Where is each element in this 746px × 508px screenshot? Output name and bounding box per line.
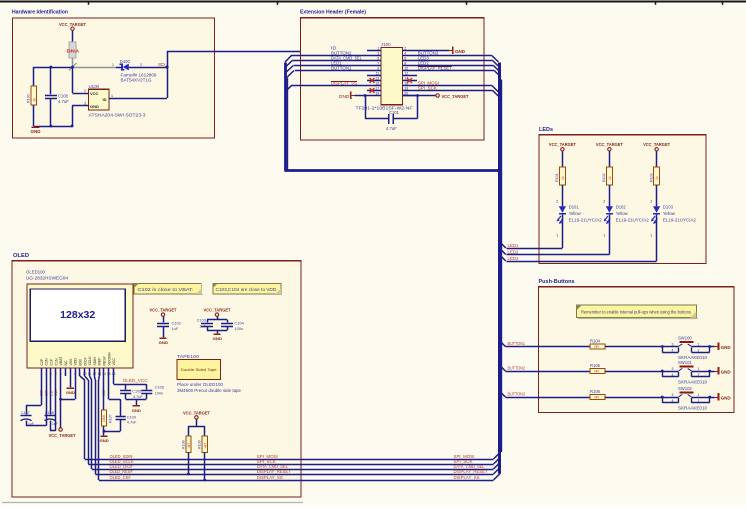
svg-text:3: 3 [672,393,674,397]
wire R100 top lead [33,67,35,86]
svg-text:C109: C109 [127,415,136,419]
junction SW101 left [661,370,664,373]
net label LED3 [418,56,430,61]
svg-text:SDIN: SDIN [93,357,97,366]
resistor R100 [27,86,37,105]
svg-text:2: 2 [84,89,86,93]
svg-text:Yellow: Yellow [569,211,582,216]
wire LED2 to bus [417,66,500,73]
svg-text:17: 17 [375,87,379,91]
resistor R106 [590,389,605,400]
svg-text:Yellow: Yellow [663,211,676,216]
pin 14 J100 [403,77,418,81]
svg-text:Push-Buttons: Push-Buttons [539,279,575,285]
pin 8 VDD OLED100 [74,358,78,376]
net label LED2 [418,61,430,66]
switch SW101 SKRAAKE010 [662,360,709,384]
svg-text:1uF: 1uF [172,326,179,331]
power port VCC_TARGET (pull-ups) [183,411,210,420]
block OLED [12,253,301,497]
junction ID node [165,65,168,68]
wire SW101 to GND [710,371,715,373]
svg-text:C100: C100 [58,94,69,99]
wire D103 cathode down [656,215,658,261]
svg-text:11: 11 [88,372,92,376]
wire VCC to DNA resistor [72,31,74,42]
wire VCC split C103 C104 [207,317,228,323]
pin 6 J100 [403,57,418,61]
wire SPI_SCK horizontal run [88,464,493,466]
svg-text:4: 4 [404,52,406,56]
svg-text:OLED_VCC: OLED_VCC [123,378,148,383]
svg-text:0R: 0R [595,370,600,374]
ground GND (pin 19) [339,92,355,99]
no connect X pin 13 [370,78,375,83]
svg-text:1: 1 [698,343,700,347]
right bus vertical wires [500,63,502,474]
power port VCC_TARGET (pin 20) [436,94,469,99]
svg-text:VCC_TARGET: VCC_TARGET [643,142,670,147]
svg-text:SW101: SW101 [678,360,692,365]
wire SPI_MOSI horizontal run [85,459,494,461]
svg-text:R107: R107 [108,414,112,423]
svg-text:BUTTON3: BUTTON3 [508,392,526,397]
svg-text:VDD: VDD [74,358,78,366]
svg-text:GND: GND [66,391,75,395]
svg-text:EL19-21UYC/A2: EL19-21UYC/A2 [616,217,650,222]
svg-text:4k7: 4k7 [187,443,191,448]
svg-text:4k7: 4k7 [203,443,207,448]
wire U100 pin2 to node [73,67,83,94]
pin 9 BS0 OLED100 [78,359,82,376]
svg-text:D101: D101 [569,204,580,209]
net label LED1 (bus tap) [508,243,520,248]
ground GND (VSS) [66,387,75,395]
svg-text:DISPLAY_RESET: DISPLAY_RESET [257,469,292,474]
svg-text:5: 5 [60,372,62,376]
svg-text:OLED100: OLED100 [26,270,45,275]
svg-text:2: 2 [698,349,700,353]
svg-text:R104: R104 [590,339,601,344]
wire SPI_SCK bus diagonal [494,457,501,464]
wire C1P to C108 [49,376,52,415]
svg-text:D102: D102 [616,204,627,209]
svg-text:GND: GND [721,396,731,401]
wire OLED signal 4 vertical [94,376,95,474]
bus horizontal wires [285,169,500,172]
diode D100 BAT54 [120,59,158,83]
resistor R109 [198,436,208,452]
svg-text:D103: D103 [663,204,674,209]
junction SW100 right [708,345,711,348]
net label SPI_MOSI (header) [418,81,439,86]
power port VCC_TARGET (D103) [643,142,670,151]
junction DNA node [71,66,74,69]
wire VCC to R102 [609,151,611,167]
wire U100 pin1 to ID node [116,51,168,99]
wire pin2 to GND [417,50,449,52]
svg-text:U100: U100 [89,84,100,89]
svg-text:100n: 100n [235,326,244,331]
svg-text:1: 1 [698,367,700,371]
junction C100 top [50,66,53,69]
svg-text:ID: ID [158,62,165,67]
svg-text:11: 11 [376,72,380,76]
svg-text:12: 12 [93,372,97,376]
wire BUTTON1 to bus [287,71,367,78]
power port VCC_TARGET (C103/C104) [204,308,231,317]
capacitor C104 [221,320,245,331]
wire C109 bottom to ground junction [104,420,121,432]
net label OLED_RES# [110,469,134,474]
svg-text:C102: C102 [172,320,181,325]
svg-text:1: 1 [40,372,42,376]
svg-text:VSS: VSS [69,358,73,366]
svg-text:GND: GND [721,370,731,375]
note C103 C104 are close to VDD [213,284,282,295]
svg-text:Farnell# 1612809: Farnell# 1612809 [121,72,158,77]
wire R106 to SW102 [605,397,662,399]
label D103 Yellow [663,204,697,222]
pin 18 J100 [403,87,418,91]
sheet top border line [0,2,746,5]
net labels on charge pump pins (red) [40,389,58,396]
LED D103 [651,206,660,224]
wire U100 pin3 to ground rail [72,106,82,127]
svg-text:VCC_TARGET: VCC_TARGET [183,411,210,416]
svg-text:DNA: DNA [67,48,80,53]
svg-text:6: 6 [65,372,67,376]
wire VDD to VBAT rail [61,376,76,400]
svg-text:2: 2 [650,200,652,204]
wire DATA_CMD_SEL horizontal run [92,469,494,471]
pin 14 RES# OLED100 [102,356,106,376]
wire LED3 bus diagonal [499,254,506,261]
svg-text:EL19-21UYC/A2: EL19-21UYC/A2 [663,217,697,222]
wire DISPLAY_RESET horizontal run [95,474,493,476]
svg-text:4.7uF: 4.7uF [127,421,137,425]
pin 2 SW102 [698,399,700,403]
capacitor C107 [21,411,34,426]
net label OLED_VCC [123,378,148,383]
svg-text:VCC_TARGET: VCC_TARGET [549,142,576,147]
svg-text:1: 1 [556,234,558,238]
net label ID [158,62,165,67]
svg-text:R109: R109 [198,440,202,449]
switch SW102 SKRAAKE010 [662,386,709,410]
svg-text:OLED: OLED [13,253,29,259]
svg-text:4: 4 [672,399,674,403]
svg-text:UG-2832HSWEG04: UG-2832HSWEG04 [26,275,69,280]
connector J100 [356,42,414,111]
pin 1 SW100 [698,343,700,347]
svg-text:SW100: SW100 [678,336,692,341]
pin 3 SW102 [672,393,674,397]
junction SW102 right [708,396,711,399]
capacitor C109 [116,415,138,424]
capacitor C101 [386,110,400,131]
svg-text:GND: GND [339,94,350,99]
wire R104 to SW100 [605,346,662,348]
wire R100 bottom lead [33,105,35,126]
wire node rail navy part [34,67,73,69]
svg-text:VCC_TARGET: VCC_TARGET [150,308,177,313]
svg-text:VCC_TARGET: VCC_TARGET [442,94,469,99]
svg-text:BUTTON2: BUTTON2 [508,366,526,371]
wire C105 drop [125,384,127,390]
svg-text:GND: GND [159,340,169,345]
wire C107 bottom to C2N [26,376,47,426]
wire LED1 horizontal [507,248,563,250]
net label DISPLAY_RESET (active low) [418,66,453,71]
pin 1 D101 [556,234,558,238]
pin 2 D101 [556,200,558,204]
svg-text:4.7uF: 4.7uF [133,395,143,399]
svg-text:3: 3 [672,343,674,347]
svg-text:4: 4 [55,372,57,376]
net label DISPLAY_SS (right) [454,475,480,480]
pin 11 J100 [367,72,381,76]
pin 1 D102 [603,234,605,238]
svg-text:D100: D100 [120,59,131,64]
pin 4 SW101 [672,373,674,377]
power port VCC_TARGET (VBAT) [49,428,76,438]
svg-text:ATSHA204-SWI SOT23-3: ATSHA204-SWI SOT23-3 [89,112,147,117]
junction gnd rail C100 [50,125,74,128]
svg-text:Remember to enable internal pu: Remember to enable internal pull-ups whe… [581,309,692,314]
pin 4 SW100 [672,349,674,353]
svg-text:C105: C105 [132,390,141,394]
junction R107 C109 ground [103,430,106,433]
wire D102 cathode down [609,215,611,255]
wire VCC to C102 [163,317,165,323]
svg-text:DISPLAY_RESET: DISPLAY_RESET [454,469,489,474]
svg-text:C102 is close to VBAT.: C102 is close to VBAT. [138,287,194,292]
wire VCC split R108 R109 [188,419,204,436]
pin 3 J100 [367,52,381,56]
wire DISPLAY_SS horizontal run [99,480,494,482]
net label LED2 (bus tap) [508,250,520,255]
svg-text:3: 3 [377,52,379,56]
net label SPI_SCK (right) [454,459,473,464]
svg-text:Extension Header (Female): Extension Header (Female) [300,10,366,16]
no connect X pin 17 [370,88,375,93]
svg-text:C107: C107 [21,411,30,415]
svg-text:BS0: BS0 [78,359,82,366]
svg-text:R106: R106 [590,389,601,394]
wire VBAT down [60,376,62,428]
net label DATA_CMD_SEL (right) [454,464,486,469]
IC U100 ATSHA204 [88,84,146,117]
wire LED3 horizontal [507,261,657,263]
wire BUTTON2 to bus [285,56,367,63]
svg-text:10: 10 [404,67,408,71]
svg-text:R102: R102 [602,173,606,182]
power port VCC_TARGET (D101) [549,142,576,151]
svg-text:GND: GND [31,129,41,134]
pin 13 J100 [367,77,381,81]
left bus vertical wires [286,63,288,172]
svg-text:LED1: LED1 [508,243,520,248]
svg-text:SKRAAKE010: SKRAAKE010 [678,380,708,385]
wire LED2 bus diagonal [499,248,506,255]
svg-text:DISPLAY_SS: DISPLAY_SS [454,475,480,480]
resistor R108 [181,436,191,452]
svg-text:6: 6 [404,57,406,61]
svg-text:C106: C106 [155,385,164,389]
svg-text:Yellow: Yellow [616,211,629,216]
svg-text:128x32: 128x32 [60,309,95,321]
svg-text:EL19-21UYC/A2: EL19-21UYC/A2 [569,217,603,222]
svg-text:1: 1 [111,94,113,98]
wire R103 to D103 [656,185,658,206]
svg-text:LED3: LED3 [508,256,520,261]
net label BUTTON3 (bus tap) [508,392,526,397]
pin 16 J100 [403,82,418,86]
pin 1 U100 [109,94,115,99]
svg-text:15: 15 [375,82,379,86]
svg-text:1: 1 [650,234,652,238]
wire pin20 to VCC [403,95,436,97]
wire SW100 to GND [710,346,715,348]
wire BUTTON2 to R105 [505,371,590,373]
no-fit marker slash [69,63,77,71]
resistor R101A DNA (not fitted) [67,42,80,58]
wire OLED_VCC ground rail [126,394,147,406]
svg-text:Double Sided Tape: Double Sided Tape [181,368,217,372]
pin 2 U100 [82,89,88,94]
svg-text:R105: R105 [590,363,601,368]
pin 19 J100 [367,92,381,96]
pin 3 SW101 [672,367,674,371]
net label SPI_MOSI (mid) [257,454,278,459]
svg-text:2: 2 [698,373,700,377]
wire R102 to D102 [609,185,611,206]
svg-text:1: 1 [698,393,700,397]
junction C101 left [364,94,367,97]
svg-text:C104: C104 [235,320,245,325]
resistor R101 [555,167,565,185]
wire IREF to R107 [103,376,105,410]
pin 2 D103 [650,200,652,204]
svg-text:VCOMH: VCOMH [107,352,111,366]
svg-text:VCC_TARGET: VCC_TARGET [49,433,76,438]
pin 1 D100 [112,63,114,67]
pin 10 J100 [403,67,418,71]
svg-text:OLED_RES#: OLED_RES# [110,469,134,474]
wire SPI_SCK to bus [417,91,499,98]
svg-text:VBAT: VBAT [59,356,63,366]
svg-text:GND: GND [90,104,99,109]
wire SPI_MOSI to bus [417,86,499,93]
svg-text:19: 19 [375,92,379,96]
junction bus corner [498,169,502,173]
sheet bottom edge shadow [0,503,746,508]
pin 4 SW102 [672,399,674,403]
svg-text:13: 13 [97,372,101,376]
svg-text:19k6: 19k6 [102,415,106,422]
junction C101 right [416,94,419,97]
pin 9 J100 [367,67,381,71]
junction SW100 left [661,345,664,348]
net label DISPLAY_RESET (mid) [257,469,292,474]
pin 15 VCOMH OLED100 [107,352,111,376]
svg-text:OLED_CS#: OLED_CS# [110,475,132,480]
net label LED1 [331,61,342,66]
switch SW100 SKRAAKE010 [662,336,709,360]
capacitor C100 [45,94,69,104]
ground GND (C102) [159,337,169,345]
wire BUTTON3 bus diagonal [499,390,506,397]
svg-text:C2P: C2P [40,358,44,365]
wire VCOMH to C109 [109,376,121,416]
power port VCC_TARGET (C102) [150,308,177,317]
svg-text:GND: GND [213,336,223,341]
net label LED3 (bus tap) [508,256,520,261]
wire DATA_CMD_SEL to bus [286,61,367,68]
net label DATA_CMD_SEL [331,56,363,61]
label D102 Yellow [616,204,650,222]
wire R108 to DISPLAY_RESET [188,452,190,474]
svg-text:1: 1 [603,234,605,238]
junction R109 [203,479,206,482]
note C102 is close to VBAT [134,284,203,295]
net label SPI_MOSI (right) [454,454,475,459]
wire VCC to R103 [656,151,658,167]
svg-text:4: 4 [672,373,674,377]
pin 15 J100 [367,82,381,86]
wire DISPLAY_SS bus diagonal [494,473,501,480]
svg-text:C103: C103 [197,318,206,323]
pin 20 J100 [403,92,418,96]
net label SPI_SCK (header) [418,86,437,91]
svg-text:GND: GND [100,439,109,443]
svg-text:3: 3 [84,102,86,106]
net label IREF (red, vertical) [102,389,106,396]
pin 1 J100 [367,47,381,51]
pin 2 SW101 [698,373,700,377]
wire BUTTON3 to R106 [505,397,590,399]
ground GND (HW id) [31,126,41,134]
ground GND (R107/C109) [100,431,109,443]
svg-text:R100: R100 [27,94,31,103]
pin 2 C2N OLED100 [45,358,49,376]
wire LED3 to bus [417,61,499,68]
svg-text:NC: NC [64,360,68,366]
svg-text:C1N: C1N [54,358,58,365]
svg-text:VCC_TARGET: VCC_TARGET [596,142,623,147]
svg-text:1k: 1k [561,176,565,180]
net label OLED_SDIN [110,454,133,459]
wire SPI_MOSI bus diagonal [494,452,501,459]
svg-text:1k: 1k [608,176,612,180]
wire BUTTON3 to bus [417,56,499,63]
svg-text:C2N: C2N [45,358,49,365]
svg-text:C1P: C1P [50,358,54,365]
svg-text:C108: C108 [45,411,54,415]
wire OLED signal 2 vertical [85,376,89,464]
capacitor C102 [157,320,181,331]
wire DNA resistor to node (grey) [72,58,74,67]
net label OLED_SCLK [110,459,134,464]
pin 13 IREF OLED100 [97,358,101,376]
capacitor C106 [141,385,164,395]
svg-text:1: 1 [112,63,114,67]
junction R108 [187,473,190,476]
pin 5 J100 [367,57,381,61]
resistor R102 [602,167,612,185]
svg-text:7: 7 [377,62,379,66]
